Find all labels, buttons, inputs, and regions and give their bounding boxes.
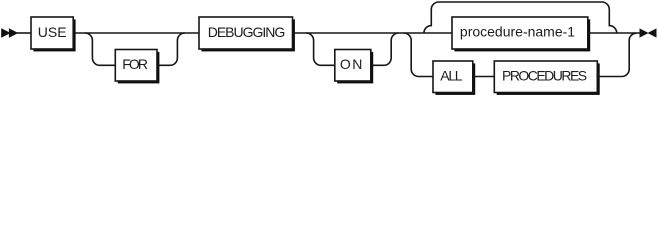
wire: start to USE <box>17 32 31 34</box>
keyword box PROCEDURES <box>494 61 599 95</box>
wire: repeat loop over procedure-name-1 <box>424 2 617 33</box>
wire: FOR bypass down <box>85 33 115 65</box>
svg-text:USE: USE <box>38 24 67 40</box>
variable box procedure-name-1 <box>452 17 590 51</box>
svg-text:PROCEDURES: PROCEDURES <box>502 68 587 84</box>
keyword box USE <box>31 17 76 51</box>
wire: ON bypass up <box>371 33 399 65</box>
wire: main line USE to DEBUGGING <box>73 32 199 34</box>
svg-text:procedure-name-1: procedure-name-1 <box>460 24 575 40</box>
wire: ALL to PROCEDURES <box>473 76 495 78</box>
svg-text:FOR: FOR <box>122 56 148 72</box>
wire: FOR bypass up <box>157 33 185 65</box>
svg-text:DEBUGGING: DEBUGGING <box>208 24 285 40</box>
wire: ALL branch down <box>404 33 433 77</box>
wire: main line procedure-name-1 to end <box>588 32 640 34</box>
start symbol <box>1 28 18 37</box>
wire: main line DEBUGGING to procedure-name-1 <box>293 32 453 34</box>
keyword box ON <box>335 50 373 84</box>
end symbol <box>640 28 657 37</box>
keyword box FOR <box>115 50 159 84</box>
keyword box DEBUGGING <box>199 17 295 51</box>
keyword box ALL <box>433 61 475 95</box>
wire: ALL branch up to main <box>597 33 636 77</box>
svg-text:ALL: ALL <box>440 68 463 84</box>
wire: ON bypass down <box>306 33 335 65</box>
svg-text:ON: ON <box>340 56 364 72</box>
